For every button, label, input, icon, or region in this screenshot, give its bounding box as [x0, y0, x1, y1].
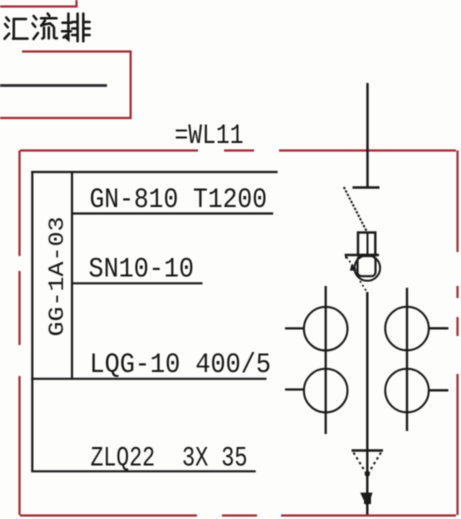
svg-text:ZLQ22: ZLQ22 — [91, 443, 156, 474]
svg-text:=WL11: =WL11 — [175, 121, 244, 152]
svg-text:SN10-10: SN10-10 — [89, 254, 195, 285]
svg-text:3X 35: 3X 35 — [182, 443, 248, 474]
svg-text:LQG-10 400/5: LQG-10 400/5 — [90, 350, 272, 381]
svg-text:GN-810 T1200: GN-810 T1200 — [90, 185, 268, 216]
svg-text:GG-1A-03: GG-1A-03 — [44, 217, 70, 337]
